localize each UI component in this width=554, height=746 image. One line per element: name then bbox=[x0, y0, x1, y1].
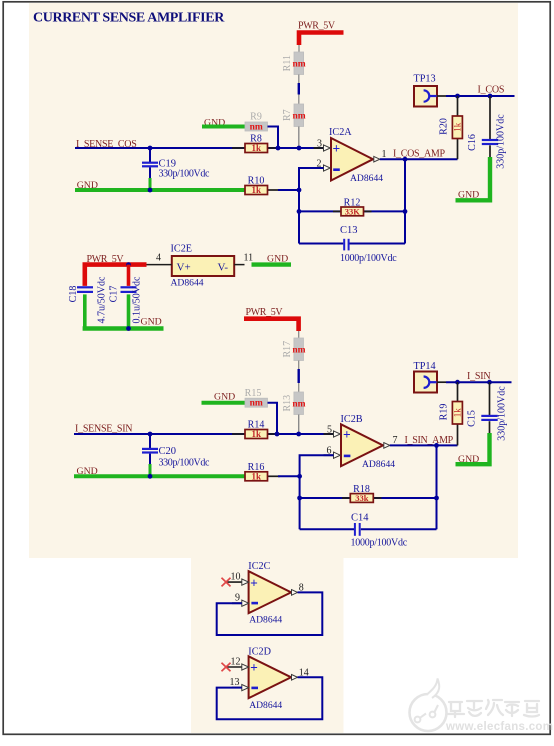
junction PWR/C17 bbox=[126, 262, 131, 267]
wire pin2 inverting bbox=[299, 168, 324, 244]
resistor R15 nm bbox=[245, 388, 268, 409]
wire output I_SIN_AMP bbox=[390, 444, 458, 446]
wire I_SENSE_COS bbox=[75, 147, 324, 149]
svg-text:TP13: TP13 bbox=[414, 73, 436, 84]
svg-text:IC2C: IC2C bbox=[248, 561, 270, 572]
resistor R9 nm bbox=[245, 112, 268, 133]
resistor R10 1k bbox=[245, 176, 280, 196]
resistor R8 1k bbox=[232, 134, 280, 154]
wire C19 to ground bus bbox=[149, 178, 152, 190]
op-amp power IC2E bbox=[171, 244, 235, 289]
pin 1 output arrow bbox=[374, 156, 380, 162]
svg-text:nm: nm bbox=[292, 112, 305, 122]
ground (R9) bbox=[202, 117, 245, 128]
svg-text:GND: GND bbox=[141, 317, 162, 328]
pin 5 arrow and number bbox=[324, 424, 341, 437]
svg-text:1000p/100Vdc: 1000p/100Vdc bbox=[351, 537, 408, 548]
junction I_COS/C16 bbox=[488, 94, 493, 99]
svg-text:IC2B: IC2B bbox=[341, 414, 363, 425]
svg-text:7: 7 bbox=[393, 435, 398, 446]
svg-text:R8: R8 bbox=[250, 134, 262, 145]
pin 4 lead bbox=[147, 253, 172, 265]
resistor R19 1k bbox=[439, 382, 463, 445]
svg-text:IC2E: IC2E bbox=[171, 244, 193, 255]
svg-text:C18: C18 bbox=[68, 286, 79, 303]
power PWR_5V (cos) bbox=[298, 20, 344, 45]
resistor R17 nm bbox=[294, 338, 304, 361]
svg-text:IC2A: IC2A bbox=[329, 127, 352, 138]
svg-text:1000p/100Vdc: 1000p/100Vdc bbox=[340, 253, 397, 264]
svg-text:11: 11 bbox=[244, 253, 254, 264]
wire R16 to inverting node bbox=[278, 475, 300, 477]
svg-text:TP14: TP14 bbox=[414, 361, 436, 372]
svg-text:+: + bbox=[250, 575, 258, 590]
svg-text:4.7u/50Vdc: 4.7u/50Vdc bbox=[96, 276, 107, 324]
pin 14 output arrow bbox=[292, 675, 298, 681]
ground (C16) bbox=[456, 157, 491, 201]
svg-text:R11: R11 bbox=[282, 55, 293, 71]
pin 7 output arrow bbox=[384, 443, 390, 449]
svg-text:C15: C15 bbox=[467, 410, 478, 427]
wire pin6 inverting bbox=[300, 455, 334, 529]
svg-text:CURRENT SENSE AMPLIFIER: CURRENT SENSE AMPLIFIER bbox=[33, 11, 225, 26]
feedback loop IC2D bbox=[217, 677, 323, 719]
junction R18 right bbox=[434, 496, 439, 501]
capacitor C20 bbox=[142, 434, 158, 465]
svg-text:12: 12 bbox=[231, 656, 241, 667]
lead TP14 bbox=[437, 381, 446, 383]
svg-text:PWR_5V: PWR_5V bbox=[298, 20, 336, 31]
svg-text:4: 4 bbox=[156, 253, 161, 264]
pin 11 lead bbox=[234, 253, 253, 265]
svg-text:C13: C13 bbox=[340, 225, 358, 236]
svg-text:V+: V+ bbox=[177, 261, 191, 273]
capacitor C18 4.7u bbox=[68, 276, 108, 324]
feedback loop IC2C bbox=[217, 592, 323, 635]
lead PWR to R11 bbox=[298, 45, 300, 52]
capacitor C17 0.1u bbox=[108, 276, 142, 324]
wire C17 ground leg bbox=[127, 294, 131, 328]
pin 10 arrow bbox=[242, 579, 249, 585]
svg-text:C14: C14 bbox=[351, 513, 369, 524]
svg-text:I_SIN: I_SIN bbox=[467, 371, 490, 382]
svg-text:R17: R17 bbox=[282, 341, 293, 358]
svg-text:3: 3 bbox=[317, 138, 322, 149]
wire output to feedback (sin) bbox=[436, 445, 438, 529]
op-amp IC2B bbox=[341, 414, 396, 470]
pin 6 arrow and number bbox=[324, 445, 341, 458]
junction output/feedback bbox=[403, 157, 408, 162]
ground bus GND (sin) bbox=[74, 466, 245, 477]
C19 value labels bbox=[159, 159, 211, 180]
svg-text:R9: R9 bbox=[250, 112, 262, 123]
lead R17-R13 with wire stub bbox=[298, 361, 300, 393]
junction R15/pin5 bbox=[275, 432, 280, 437]
ground (C15) bbox=[456, 433, 490, 465]
svg-text:R10: R10 bbox=[248, 176, 265, 187]
TP14 probe symbol bbox=[424, 377, 437, 388]
ground bus GND (cos) bbox=[75, 180, 245, 191]
svg-text:I_COS: I_COS bbox=[478, 84, 505, 95]
svg-text:5: 5 bbox=[327, 424, 332, 435]
svg-text:www.elecfans.com: www.elecfans.com bbox=[445, 721, 553, 733]
svg-text:I_SENSE_SIN: I_SENSE_SIN bbox=[75, 423, 132, 434]
junction R12 right bbox=[403, 209, 408, 214]
svg-text:1k: 1k bbox=[453, 122, 463, 132]
svg-text:R13: R13 bbox=[282, 395, 293, 412]
junction R12 left bbox=[297, 209, 302, 214]
svg-text:330p/100Vdc: 330p/100Vdc bbox=[495, 114, 506, 169]
junction C19 ground bbox=[148, 188, 153, 193]
svg-text:330p/100Vdc: 330p/100Vdc bbox=[159, 457, 211, 468]
wire I_COS bbox=[446, 95, 515, 97]
ground bus (decoupling) bbox=[83, 317, 164, 329]
svg-text:13: 13 bbox=[230, 677, 240, 688]
svg-text:nm: nm bbox=[292, 60, 305, 70]
svg-text:AD8644: AD8644 bbox=[362, 459, 395, 470]
svg-text:GND: GND bbox=[214, 391, 235, 402]
svg-text:I_SIN_AMP: I_SIN_AMP bbox=[405, 435, 454, 446]
pin 12 arrow bbox=[242, 664, 249, 670]
svg-text:1k: 1k bbox=[453, 408, 463, 418]
svg-text:C16: C16 bbox=[467, 134, 478, 151]
svg-text:AD8644: AD8644 bbox=[249, 615, 282, 626]
wire output I_COS_AMP bbox=[380, 158, 458, 160]
resistor R18 33k feedback bbox=[300, 484, 437, 503]
svg-text:1k: 1k bbox=[251, 429, 261, 439]
junction C20 tap bbox=[148, 432, 153, 437]
resistor R13 nm bbox=[294, 392, 304, 415]
junction TP13/R20 bbox=[455, 94, 460, 99]
svg-text:R15: R15 bbox=[245, 388, 262, 399]
svg-text:1k: 1k bbox=[251, 472, 261, 482]
pin 13 arrow and number bbox=[230, 677, 249, 691]
junction R9/pin3 bbox=[276, 146, 281, 151]
pin 9 arrow and number bbox=[232, 593, 249, 607]
svg-text:V-: V- bbox=[218, 261, 229, 273]
junction R13/pin5 bbox=[296, 432, 301, 437]
svg-text:I_COS_AMP: I_COS_AMP bbox=[393, 149, 445, 160]
svg-text:nm: nm bbox=[292, 400, 305, 410]
svg-text:+: + bbox=[333, 141, 341, 156]
svg-text:C20: C20 bbox=[159, 446, 177, 457]
lead PWR to R17 bbox=[298, 331, 300, 338]
ground (R15) bbox=[202, 391, 246, 402]
test point TP14 bbox=[414, 361, 438, 393]
svg-text:+: + bbox=[250, 660, 258, 675]
junction C20 ground bbox=[148, 474, 153, 479]
svg-text:AD8644: AD8644 bbox=[350, 173, 383, 184]
svg-text:10: 10 bbox=[231, 572, 241, 583]
resistor R14 1k bbox=[232, 420, 280, 440]
svg-text:R16: R16 bbox=[248, 462, 265, 473]
capacitor C14 1000p bbox=[300, 513, 437, 549]
lead R13 to pin5 node bbox=[298, 415, 300, 435]
svg-text:R7: R7 bbox=[282, 109, 293, 121]
svg-text:C17: C17 bbox=[108, 286, 119, 303]
power PWR_5V (sin) bbox=[244, 307, 299, 331]
pin 8 output arrow bbox=[292, 590, 298, 596]
op-amp IC2D bbox=[248, 646, 291, 710]
svg-text:9: 9 bbox=[235, 593, 240, 604]
svg-text:AD8644: AD8644 bbox=[171, 278, 204, 289]
junction C19 tap bbox=[148, 146, 153, 151]
resistor R20 1k bbox=[439, 96, 463, 159]
TP13 probe symbol bbox=[424, 90, 437, 101]
power PWR_5V (IC2E) bbox=[85, 254, 147, 286]
wire C20 to ground bus bbox=[149, 464, 152, 476]
junction R18 left bbox=[297, 496, 302, 501]
wire R9 to pin3 node bbox=[268, 127, 279, 149]
wire C18 ground leg bbox=[83, 294, 87, 328]
lead R11-R7 with wire stub bbox=[298, 75, 300, 105]
op-amp IC2A bbox=[329, 127, 383, 184]
wire C17 power lead bbox=[127, 265, 131, 286]
svg-text:nm: nm bbox=[292, 346, 305, 356]
pin 10 stub and number bbox=[226, 572, 243, 583]
junction I_SIN/C15 bbox=[487, 380, 492, 385]
ground (pin 11) bbox=[252, 254, 292, 265]
wire I_SENSE_SIN bbox=[74, 433, 334, 435]
pin 3 arrow and number bbox=[314, 138, 331, 151]
pin 12 stub and number bbox=[226, 656, 243, 667]
svg-text:nm: nm bbox=[250, 399, 263, 409]
svg-text:nm: nm bbox=[250, 123, 263, 133]
svg-text:R12: R12 bbox=[344, 197, 361, 208]
no-connect X (pin 10) bbox=[222, 578, 231, 587]
test point TP13 bbox=[414, 73, 438, 106]
lead R7 to pin3 node bbox=[298, 127, 300, 149]
junction R16/feedback bbox=[297, 474, 302, 479]
capacitor C13 1000p bbox=[299, 225, 405, 264]
watermark logo (decorative) bbox=[410, 679, 554, 734]
svg-text:R14: R14 bbox=[248, 420, 265, 431]
junction output/feedback (sin) bbox=[434, 443, 439, 448]
svg-text:1: 1 bbox=[382, 149, 387, 160]
junction R10/feedback bbox=[297, 188, 302, 193]
svg-text:+: + bbox=[343, 427, 351, 442]
C20 value labels bbox=[159, 446, 211, 469]
wire R15 to pin5 node bbox=[268, 403, 278, 434]
junction decoupling ground bbox=[126, 326, 131, 331]
resistor R16 1k bbox=[245, 462, 280, 482]
junction TP14/R19 bbox=[455, 380, 460, 385]
resistor R12 33K feedback bbox=[299, 197, 405, 216]
svg-text:GND: GND bbox=[458, 454, 479, 465]
svg-text:330p/100Vdc: 330p/100Vdc bbox=[497, 386, 508, 441]
svg-text:R18: R18 bbox=[353, 484, 370, 495]
svg-text:R19: R19 bbox=[439, 404, 450, 421]
wire I_SIN bbox=[446, 381, 512, 383]
junction R7/pin3 bbox=[297, 146, 302, 151]
capacitor C16 330p bbox=[467, 96, 507, 169]
lead TP13 bbox=[437, 95, 446, 97]
resistor R11 nm bbox=[294, 52, 304, 75]
op-amp IC2C bbox=[248, 561, 291, 625]
no-connect X (pin 12) bbox=[222, 663, 231, 672]
capacitor C19 bbox=[142, 148, 158, 179]
svg-text:AD8644: AD8644 bbox=[249, 700, 282, 711]
svg-text:1k: 1k bbox=[251, 185, 261, 195]
svg-text:GND: GND bbox=[458, 190, 479, 201]
svg-text:PWR_5V: PWR_5V bbox=[246, 307, 284, 318]
svg-text:IC2D: IC2D bbox=[248, 646, 271, 657]
wire output to feedback bbox=[404, 159, 406, 243]
svg-text:330p/100Vdc: 330p/100Vdc bbox=[159, 169, 211, 180]
capacitor C15 330p bbox=[467, 382, 508, 441]
svg-text:1k: 1k bbox=[251, 143, 261, 153]
wire R10 to inverting node bbox=[278, 189, 299, 191]
resistor R7 nm bbox=[294, 104, 304, 127]
svg-text:R20: R20 bbox=[439, 118, 450, 135]
pin 2 arrow and number bbox=[314, 158, 331, 171]
